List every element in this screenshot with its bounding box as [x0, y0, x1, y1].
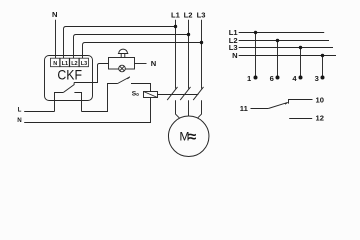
wire L1 (right panel) — [239, 32, 325, 34]
svg-text:L2: L2 — [184, 11, 193, 20]
wire L1 vertical — [175, 20, 177, 89]
junction L1/term1 — [254, 31, 257, 34]
wire terminal 3 drop — [322, 56, 324, 78]
wire L3 (right panel) — [239, 47, 333, 49]
wire terminal 11 — [251, 108, 269, 110]
terminal 12 wire — [289, 118, 312, 120]
svg-text:6: 6 — [270, 74, 274, 83]
node L3 (top middle) — [197, 11, 206, 20]
junction L2/term6 — [276, 39, 279, 42]
CKF contact NC terminal stub — [74, 93, 81, 112]
lamp symbol (circle with X) — [119, 65, 126, 72]
svg-text:L1: L1 — [171, 11, 181, 20]
node L2 (right panel) — [229, 36, 238, 45]
label CKF — [57, 66, 82, 82]
terminal N of CKF — [51, 58, 60, 66]
svg-text:N: N — [151, 59, 156, 68]
node L (mains) — [18, 107, 22, 114]
node N (right of lamp) — [151, 59, 156, 68]
wire pole3 to motor — [196, 100, 202, 120]
wire N (right panel) — [239, 55, 336, 57]
CKF contact blade — [63, 83, 74, 93]
terminal 10 wire — [289, 100, 313, 104]
wire L1 feed to CKF — [64, 27, 176, 59]
label 6 — [270, 74, 274, 83]
terminal 3 dot — [321, 76, 325, 80]
label 3 — [315, 74, 319, 83]
svg-text:10: 10 — [316, 95, 324, 104]
CKF contact common terminal + wire to L — [55, 93, 64, 112]
terminal 6 dot — [276, 76, 280, 80]
label 11 — [240, 104, 249, 113]
wire N to CKF terminal — [55, 20, 57, 59]
node N (right panel) — [232, 51, 237, 60]
manual switch blade — [118, 77, 130, 84]
wire L2 (right panel) — [239, 40, 329, 42]
manual switch left terminal wire — [82, 84, 118, 112]
junction N/term3 — [321, 54, 324, 57]
node L1 (right panel) — [229, 28, 239, 37]
CKF contact NO output wire to lamp — [74, 64, 108, 83]
node N (top label) — [52, 10, 57, 19]
wire pole1 to motor — [176, 100, 182, 120]
svg-text:≈: ≈ — [188, 128, 196, 145]
label 1 — [247, 74, 252, 83]
label S0 — [132, 90, 139, 97]
label 12 — [316, 114, 324, 123]
junction L3 — [200, 41, 203, 44]
changeover blade 11 — [268, 102, 287, 108]
svg-text:N: N — [52, 10, 57, 19]
junction L3/term4 — [299, 46, 302, 49]
manual switch right terminal wire down to release — [131, 84, 151, 92]
wire terminal 6 drop — [277, 41, 279, 78]
wire L — [24, 111, 54, 113]
terminal 4 dot — [299, 76, 303, 80]
label 10 — [316, 95, 324, 104]
breaker contact pole 1 — [167, 87, 177, 100]
breaker contact pole 3 — [193, 87, 203, 100]
wire L3 feed to CKF — [83, 43, 202, 59]
svg-text:CKF: CKF — [57, 66, 82, 82]
svg-text:12: 12 — [316, 114, 324, 123]
svg-text:L3: L3 — [197, 11, 206, 20]
wire release to N line — [24, 98, 150, 123]
svg-text:11: 11 — [240, 104, 249, 113]
node N (mains) — [17, 117, 22, 124]
terminal L2 of CKF — [70, 58, 79, 66]
svg-text:N: N — [232, 51, 237, 60]
motor M — [168, 116, 209, 157]
wire lamp to N — [135, 63, 147, 65]
terminal L1 of CKF — [60, 58, 69, 66]
signal lamp box — [109, 58, 135, 70]
wire terminal 4 drop — [300, 48, 302, 78]
node L2 (top middle) — [184, 11, 193, 20]
node L1 (top middle) — [171, 11, 181, 20]
breaker contact pole 2 — [180, 87, 190, 100]
mechanical linkage to 3-pole contacts — [158, 94, 199, 96]
relay CKF box — [45, 56, 93, 101]
terminal 1 dot — [254, 76, 258, 80]
wire L3 vertical — [201, 20, 203, 89]
release S0 (box with diagonal) — [144, 92, 158, 98]
node L3 (right panel) — [229, 43, 238, 52]
label 4 — [292, 74, 297, 83]
lamp dome button — [118, 49, 128, 57]
svg-text:L: L — [18, 107, 22, 114]
wire L2 vertical — [188, 20, 190, 89]
wire L2 feed to CKF — [74, 35, 189, 59]
junction L1 — [174, 25, 177, 28]
terminal L3 of CKF — [79, 58, 88, 66]
junction L2 — [187, 33, 190, 36]
wire terminal 1 drop — [255, 33, 257, 78]
svg-text:N: N — [17, 117, 22, 124]
wire pole2 to motor — [188, 100, 190, 116]
svg-text:S0: S0 — [132, 90, 139, 97]
svg-text:3: 3 — [315, 74, 319, 83]
